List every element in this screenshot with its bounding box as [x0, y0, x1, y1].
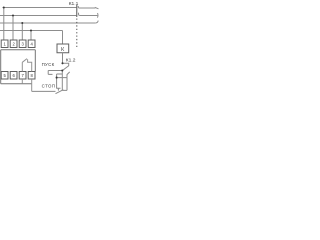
svg-text:К1.2: К1.2	[66, 57, 76, 63]
svg-text:К1.1: К1.1	[69, 1, 79, 7]
svg-text:ПУСК: ПУСК	[42, 62, 55, 67]
svg-text:СТОП: СТОП	[42, 83, 56, 88]
svg-text:6: 6	[13, 73, 16, 78]
svg-text:1: 1	[4, 42, 7, 47]
svg-text:К: К	[61, 47, 65, 53]
svg-text:8: 8	[31, 73, 34, 78]
svg-text:3: 3	[22, 42, 25, 47]
svg-text:7: 7	[22, 73, 25, 78]
svg-text:2: 2	[13, 42, 16, 47]
svg-text:5: 5	[4, 73, 7, 78]
svg-text:4: 4	[31, 42, 34, 47]
